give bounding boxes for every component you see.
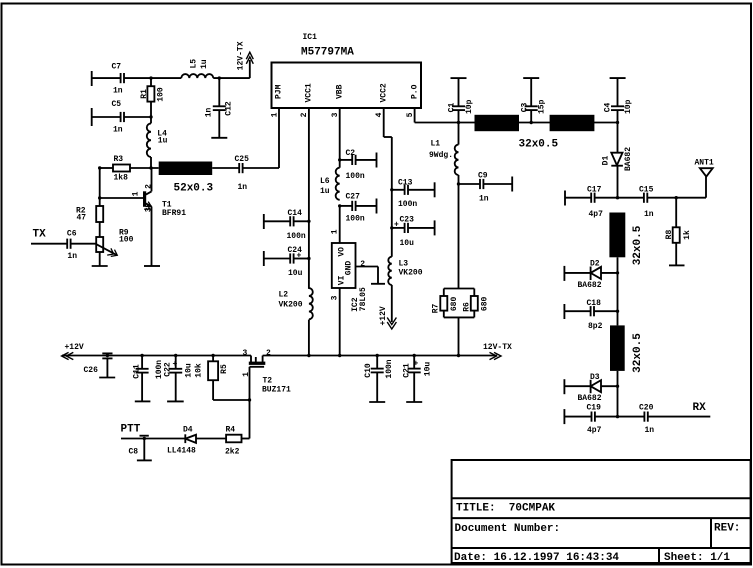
svg-text:4p7: 4p7 [589,210,604,219]
svg-text:BUZ171: BUZ171 [262,386,291,395]
svg-text:RX: RX [693,402,707,414]
svg-text:1n: 1n [113,126,123,135]
svg-text:TITLE: 70CMPAK: TITLE: 70CMPAK [456,503,555,515]
svg-text:2: 2 [360,260,365,269]
svg-text:L1: L1 [431,140,441,149]
svg-text:C17: C17 [587,186,602,195]
svg-text:2: 2 [266,349,271,358]
svg-text:1: 1 [131,191,140,196]
svg-text:52x0.3: 52x0.3 [174,183,214,195]
svg-text:8p2: 8p2 [588,322,603,331]
svg-text:10p: 10p [465,99,474,114]
svg-text:Date: 16.12.1997 16:43:34: Date: 16.12.1997 16:43:34 [454,552,619,564]
svg-text:10u: 10u [288,269,303,278]
svg-text:C5: C5 [112,100,122,109]
svg-text:1n: 1n [645,426,655,435]
svg-text:R8: R8 [665,230,674,240]
svg-text:C4: C4 [603,103,612,113]
svg-text:2k2: 2k2 [225,448,240,457]
svg-text:L2: L2 [279,291,289,300]
svg-text:R7: R7 [432,304,441,314]
svg-text:VO: VO [337,247,346,257]
svg-text:C10: C10 [364,363,373,378]
svg-text:100n: 100n [287,232,306,241]
svg-text:R1: R1 [140,89,149,99]
svg-text:R3: R3 [114,155,124,164]
svg-text:15p: 15p [538,99,547,114]
svg-text:32x0.5: 32x0.5 [632,333,644,373]
svg-text:100n: 100n [398,200,417,209]
svg-text:C21: C21 [402,363,411,378]
svg-text:L5: L5 [189,59,198,69]
svg-text:VCC1: VCC1 [305,83,314,102]
svg-text:Document Number:: Document Number: [455,523,561,535]
svg-text:2: 2 [145,184,154,189]
svg-text:L3: L3 [399,260,409,269]
svg-text:C13: C13 [398,179,413,188]
svg-text:C8: C8 [129,448,139,457]
svg-text:+12V: +12V [379,306,388,325]
svg-text:BFR91: BFR91 [162,209,186,218]
svg-text:VI: VI [337,275,346,285]
svg-text:1n: 1n [67,252,77,261]
svg-text:32x0.5: 32x0.5 [632,225,644,265]
svg-text:5: 5 [406,112,415,117]
svg-text:1k: 1k [683,230,692,240]
svg-text:D4: D4 [183,426,193,435]
svg-text:1n: 1n [644,210,654,219]
svg-text:C3: C3 [520,103,529,113]
svg-text:+: + [394,221,399,230]
svg-text:4: 4 [375,112,384,117]
svg-text:1n: 1n [238,183,248,192]
svg-text:L6: L6 [320,177,330,186]
svg-text:PTT: PTT [121,424,141,436]
svg-text:78L05: 78L05 [359,287,368,311]
svg-text:C22: C22 [164,362,173,377]
svg-text:C26: C26 [84,366,99,375]
svg-text:C11: C11 [133,364,142,379]
svg-text:C18: C18 [587,299,602,308]
svg-text:VK200: VK200 [399,269,423,278]
svg-text:3: 3 [331,112,340,117]
svg-text:D2: D2 [590,260,600,269]
svg-text:1: 1 [242,372,251,377]
svg-text:GND: GND [344,261,353,276]
svg-text:1u: 1u [158,137,168,146]
svg-text:C1: C1 [448,103,457,113]
svg-text:R6: R6 [462,302,471,312]
svg-text:1u: 1u [200,59,209,69]
svg-text:C12: C12 [224,101,233,116]
svg-text:Sheet: 1/1: Sheet: 1/1 [664,552,730,564]
svg-text:D1: D1 [602,156,611,166]
svg-text:TX: TX [33,229,47,241]
svg-text:3: 3 [330,295,339,300]
svg-text:2: 2 [300,112,309,117]
svg-text:100: 100 [119,236,134,245]
svg-text:M57797MA: M57797MA [301,47,354,59]
svg-text:12V-TX: 12V-TX [236,41,245,70]
svg-text:BA682: BA682 [578,281,602,290]
svg-text:R4: R4 [226,426,236,435]
svg-text:12V-TX: 12V-TX [483,343,512,352]
svg-text:T2: T2 [263,377,273,386]
svg-text:3: 3 [243,349,248,358]
svg-text:C24: C24 [288,246,303,255]
svg-text:100n: 100n [346,215,365,224]
svg-text:32x0.5: 32x0.5 [519,139,559,151]
svg-text:LL4148: LL4148 [167,447,196,456]
svg-text:10p: 10p [624,99,633,114]
svg-text:1n: 1n [205,108,214,118]
svg-text:C25: C25 [235,155,250,164]
svg-text:10u: 10u [423,362,432,377]
svg-text:1: 1 [270,112,279,117]
svg-text:100n: 100n [346,172,365,181]
svg-text:C20: C20 [639,404,654,413]
svg-text:REV:: REV: [714,523,740,535]
svg-text:C23: C23 [400,216,415,225]
svg-text:4p7: 4p7 [587,426,602,435]
svg-text:BA682: BA682 [578,394,602,403]
svg-text:3: 3 [145,207,154,212]
svg-text:BA682: BA682 [624,147,633,171]
svg-text:C14: C14 [288,209,303,218]
svg-text:D3: D3 [590,373,600,382]
svg-text:1n: 1n [479,195,489,204]
svg-text:680: 680 [480,297,489,312]
svg-text:10k: 10k [195,363,204,378]
svg-text:C6: C6 [67,230,77,239]
svg-text:100: 100 [157,87,166,102]
svg-text:PJM: PJM [275,84,284,99]
svg-text:VK200: VK200 [279,301,303,310]
svg-text:1u: 1u [320,187,330,196]
svg-text:VBB: VBB [335,84,344,99]
svg-text:P.O: P.O [410,84,419,99]
svg-text:R5: R5 [220,364,229,374]
svg-text:C19: C19 [587,404,602,413]
svg-text:1n: 1n [113,87,123,96]
svg-text:ANT1: ANT1 [695,159,714,168]
svg-text:1k8: 1k8 [114,174,129,183]
svg-text:IC1: IC1 [303,33,318,42]
svg-text:C2: C2 [346,149,356,158]
svg-text:10u: 10u [400,239,415,248]
svg-text:680: 680 [450,297,459,312]
svg-text:C9: C9 [478,172,488,181]
svg-text:9Wdg.: 9Wdg. [429,151,453,160]
svg-text:C27: C27 [346,193,361,202]
svg-text:C7: C7 [112,63,122,72]
svg-text:1: 1 [330,229,339,234]
svg-text:VCC2: VCC2 [379,83,388,102]
svg-text:+: + [414,360,419,369]
svg-text:47: 47 [77,214,87,223]
svg-text:10u: 10u [185,363,194,378]
svg-text:100n: 100n [385,359,394,378]
svg-text:+12V: +12V [65,343,84,352]
svg-text:+: + [173,360,178,369]
svg-text:C15: C15 [639,186,654,195]
